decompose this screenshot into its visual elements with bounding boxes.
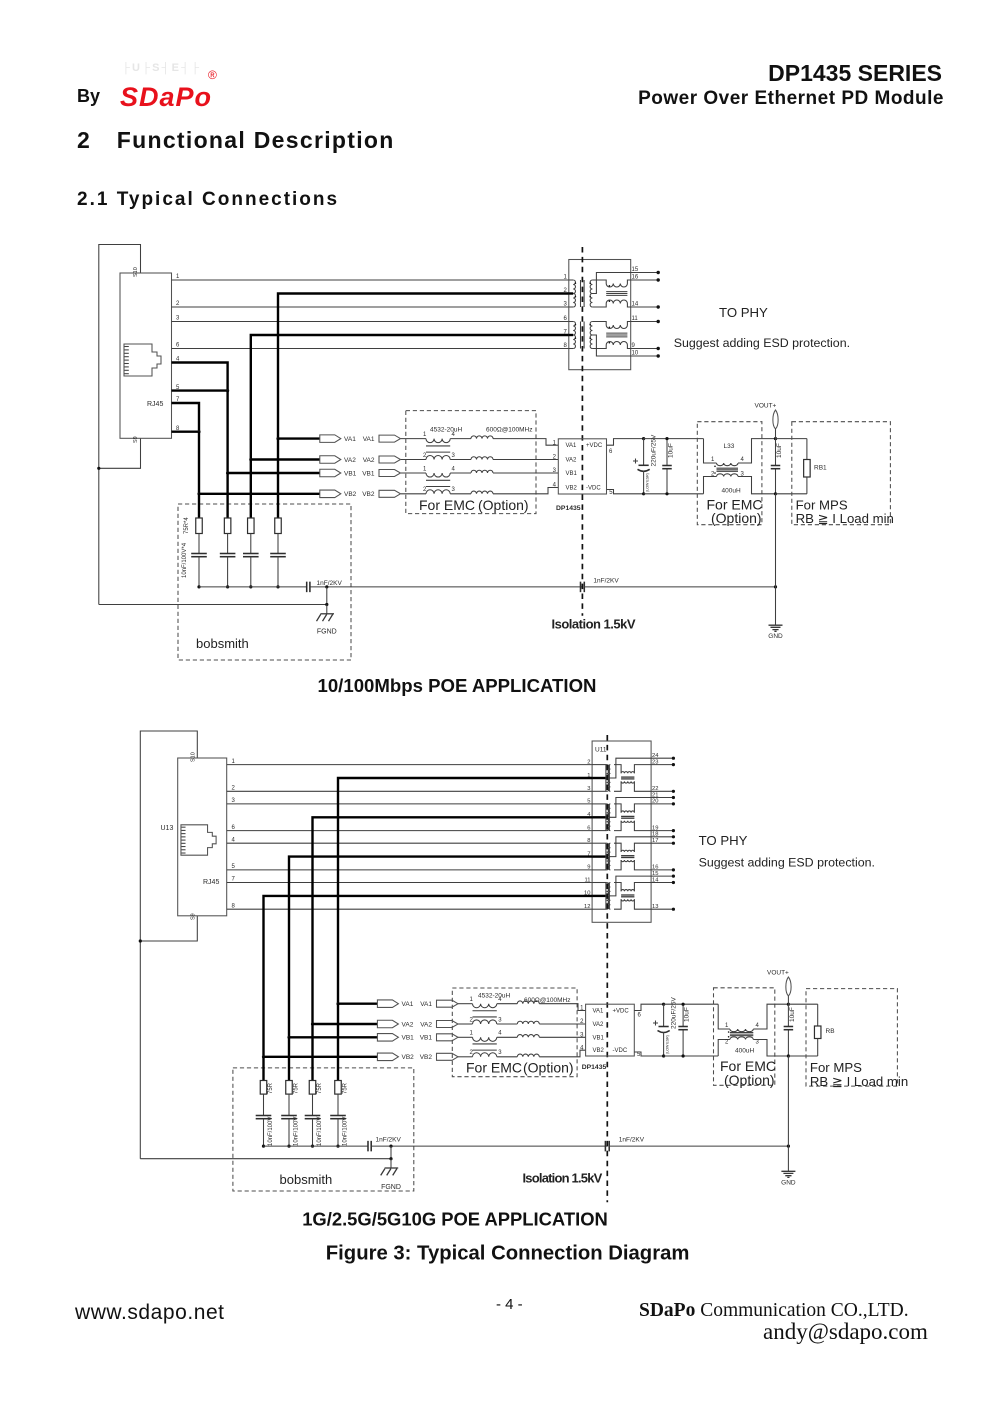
wire VB2-1 w-b	[450, 493, 471, 495]
svg-text:75R: 75R	[343, 1082, 349, 1094]
capacitor 1nF/2KV-2b	[605, 1137, 644, 1152]
net flag VA1-2	[377, 1000, 413, 1008]
net label VA1-1 in	[363, 435, 401, 443]
choke L2 winding 2-3	[725, 1036, 760, 1046]
svg-text:10nF/100V: 10nF/100V	[294, 1117, 300, 1146]
wire VA1-1 to EMC	[401, 438, 426, 440]
junction rail-1 VA1	[276, 585, 279, 588]
net flag VB2-1	[320, 490, 357, 498]
label U12 -VDC	[613, 1048, 628, 1054]
junction shield-2	[139, 939, 142, 942]
power flag VOUT+ (1)	[755, 403, 779, 439]
label 10nF/100V*4	[182, 542, 188, 578]
wire FGND-1 rail	[99, 604, 327, 606]
capacitor C6 10uF out (2)	[784, 1004, 796, 1056]
junction rail-1 VB1	[226, 585, 229, 588]
svg-text:19: 19	[652, 825, 658, 831]
capacitor 10nF-2d	[256, 1116, 274, 1147]
svg-text:4: 4	[232, 837, 236, 843]
svg-text:10nF/100V*4: 10nF/100V*4	[182, 542, 188, 578]
svg-text:2: 2	[725, 1040, 729, 1046]
label RJ45-1	[147, 401, 163, 408]
choke L2 top out	[753, 1004, 788, 1029]
label TO PHY (1)	[719, 305, 768, 320]
capacitor 10nF-1a	[270, 554, 286, 557]
inductor core	[426, 446, 450, 452]
inductor core	[426, 480, 450, 486]
wire VB2-2 feed	[264, 896, 593, 1057]
svg-text:VB1: VB1	[344, 470, 357, 477]
svg-text:+VDC: +VDC	[586, 443, 603, 449]
svg-text:18: 18	[652, 832, 658, 838]
svg-text:2: 2	[176, 301, 180, 307]
module U12 DP1435 body	[586, 1004, 635, 1056]
wire rail bot 1a	[644, 493, 704, 495]
choke L33 top out	[738, 439, 776, 463]
svg-text:S9: S9	[133, 436, 139, 443]
junction VB1-1 tee	[226, 471, 229, 474]
wire RJ45-1 pin 1 to T1	[172, 274, 569, 280]
wire VA2-1 in	[493, 459, 558, 461]
label 4532-20uH (2)	[478, 993, 510, 1000]
ferrite bead VB1-2	[517, 1035, 539, 1038]
label For EMC (Option) 1	[419, 497, 529, 513]
wire GND-1 drop	[775, 494, 777, 625]
svg-text:9: 9	[587, 865, 590, 871]
wire RJ45-2 shield bottom stub	[140, 916, 197, 941]
wire r-c 4	[198, 534, 200, 554]
label U12 VB2	[593, 1048, 605, 1054]
title 10/100Mbps	[318, 675, 597, 696]
wire RJ45-2 shield top loop	[140, 731, 197, 1159]
svg-text:Isolation 1.5kV: Isolation 1.5kV	[552, 617, 636, 632]
svg-text:RB ≧ I Load min: RB ≧ I Load min	[796, 511, 894, 526]
junction C6 bottom	[787, 1054, 790, 1057]
ferrite bead VA1-2	[517, 1001, 539, 1004]
resistor RB	[814, 1004, 834, 1056]
net flag VB2-2	[377, 1053, 414, 1061]
transformer T1 channel B	[563, 316, 659, 357]
wire c-rail 2	[250, 557, 252, 587]
net flag VA1-1	[320, 435, 356, 443]
wire c-rail 1	[277, 557, 279, 587]
inductor 4532-20uH winding B	[423, 487, 456, 494]
ground FGND-1	[317, 605, 337, 636]
svg-text:VA1: VA1	[566, 443, 578, 449]
label For EMC (Option) 3	[466, 1060, 574, 1076]
inductor 4532-20uH winding B (2)	[470, 1017, 503, 1024]
label bobsmith-1	[196, 636, 249, 651]
wire VB1-1 w-b	[450, 472, 471, 474]
svg-text:GND: GND	[781, 1180, 796, 1187]
svg-text:4532-20uH: 4532-20uH	[478, 993, 510, 1000]
junction pins 7-8	[197, 430, 200, 433]
svg-text:VB2: VB2	[420, 1054, 433, 1061]
svg-text:220uF/25V: 220uF/25V	[671, 997, 678, 1029]
choke L33 winding 2-3	[711, 472, 745, 478]
wire VB1-2 in	[539, 1036, 585, 1038]
ferrite bead VA2-2	[517, 1021, 539, 1024]
svg-text:(LOW ESR): (LOW ESR)	[646, 473, 650, 492]
wire rail-1 left	[199, 586, 306, 588]
header: ghost mark	[122, 62, 226, 75]
choke L2 core	[730, 1033, 753, 1036]
svg-text:VB1: VB1	[402, 1035, 415, 1042]
wire VA2-2 row	[313, 1023, 378, 1025]
wire RJ45-1 pin 2 to T1	[172, 301, 569, 307]
wire rail-2 left	[264, 1145, 368, 1147]
wire VB1-2 to EMC	[458, 1036, 473, 1038]
svg-text:(LOW ESR): (LOW ESR)	[666, 1035, 670, 1054]
svg-text:15: 15	[632, 267, 639, 273]
wire VA1-2 to EMC	[458, 1003, 473, 1005]
wire RJ45-1 pin 5	[172, 385, 228, 391]
ferrite bead VB2-2	[517, 1054, 539, 1057]
svg-text:5: 5	[232, 864, 236, 870]
transformer U11 channel 4	[584, 871, 675, 911]
svg-text:3: 3	[498, 1050, 502, 1056]
junction 10uF-1 bottom	[665, 492, 668, 495]
junction VA2-1 tee	[249, 458, 252, 461]
svg-text:600Ω@100MHz: 600Ω@100MHz	[486, 427, 533, 434]
wire RJ45-2 pin 3	[227, 798, 592, 804]
svg-text:S9: S9	[191, 913, 197, 920]
svg-text:4: 4	[741, 457, 745, 463]
svg-text:For EMC: For EMC	[419, 497, 475, 513]
junction VA1-1 tee	[276, 437, 279, 440]
svg-text:1: 1	[711, 457, 715, 463]
capacitor C2 10uF (1)	[662, 439, 674, 494]
inductor core (2)	[473, 1011, 497, 1017]
svg-text:VB1: VB1	[593, 1035, 605, 1041]
label RB>=ILoad (1)	[796, 511, 894, 526]
inductor 4532-20uH winding A (2)	[470, 997, 503, 1008]
svg-text:bobsmith: bobsmith	[280, 1172, 333, 1187]
heading 2 Functional Description	[77, 127, 395, 154]
net flag VB1-2	[377, 1034, 414, 1042]
junction 220uF-1 bottom	[642, 492, 645, 495]
svg-text:3: 3	[452, 487, 456, 493]
svg-text:1nF/2KV: 1nF/2KV	[376, 1137, 402, 1144]
svg-text:3: 3	[452, 453, 456, 459]
svg-text:VB2: VB2	[344, 491, 357, 498]
junction GND-1 tap	[774, 585, 777, 588]
svg-text:(Option): (Option)	[711, 510, 762, 526]
junction VB2-2 tee	[262, 1055, 265, 1058]
capacitor 10nF-1b	[243, 554, 259, 557]
label U12 VA2	[593, 1022, 605, 1028]
module U1 DP1435 body	[558, 439, 606, 494]
svg-text:1: 1	[423, 432, 427, 438]
wire VB2-2 jog	[539, 1050, 585, 1057]
wire VB2-1 drop	[198, 432, 200, 494]
label S9-2	[191, 913, 197, 920]
wire FGND-2 rail	[140, 1158, 391, 1160]
choke L33 top path	[704, 439, 717, 463]
svg-text:7: 7	[232, 877, 236, 883]
wire c-rail 2-1	[337, 1119, 339, 1146]
pin labels U12 left	[580, 1006, 584, 1052]
wire VA2-1 feed	[251, 335, 569, 460]
wire FGND-2 drop	[390, 1146, 392, 1159]
wire U12 -VDC out	[634, 1052, 663, 1058]
label S10-1	[133, 267, 139, 277]
svg-text:U13: U13	[161, 825, 174, 832]
svg-text:VA1: VA1	[363, 436, 375, 443]
label For MPS (2)	[810, 1060, 862, 1075]
label U11	[595, 747, 607, 754]
net flag VA2-2	[377, 1020, 413, 1028]
connector J1 RJ45 body	[120, 273, 172, 438]
label U1 VB1	[566, 471, 578, 477]
For MPS dashed box (1)	[792, 422, 891, 525]
ground FGND-2	[381, 1159, 401, 1191]
For MPS dashed box (2)	[806, 989, 897, 1087]
svg-text:3: 3	[232, 798, 236, 804]
wire VA2-1 row	[251, 458, 320, 460]
capacitor 10nF-2c	[281, 1116, 299, 1147]
resistor 75R-2b	[309, 1081, 323, 1095]
wire VA2-2 feed	[313, 817, 593, 1024]
junction VB2-1 tee	[197, 492, 200, 495]
transformer U11 channel 3	[587, 832, 675, 872]
junction 10uF-2 bottom	[682, 1054, 685, 1057]
svg-text:bobsmith: bobsmith	[196, 636, 249, 651]
label L33	[724, 443, 735, 450]
svg-text:13: 13	[652, 904, 658, 910]
svg-text:L33: L33	[724, 443, 735, 450]
junction rail-2 VA2	[311, 1145, 314, 1148]
choke L33 core	[717, 468, 739, 471]
capacitor C5 10uF (2)	[678, 1004, 690, 1056]
label U1 -VDC	[586, 486, 601, 492]
svg-text:VA1: VA1	[402, 1001, 414, 1008]
label Isolation 1.5kV (1)	[552, 617, 636, 632]
svg-text:RJ45: RJ45	[203, 879, 219, 886]
wire VA1-1 down	[277, 439, 279, 518]
svg-text:15: 15	[652, 871, 658, 877]
wire VA1-2 jog	[539, 1004, 585, 1011]
header: subtitle	[567, 88, 944, 110]
svg-text:Suggest adding ESD protection.: Suggest adding ESD protection.	[674, 336, 850, 350]
svg-text:75R: 75R	[317, 1082, 323, 1094]
wire c-rail 4	[198, 557, 200, 587]
wire RJ45-2 pin 5	[227, 864, 592, 870]
label S10-2	[191, 752, 197, 762]
choke L2 bottom out	[753, 1040, 788, 1057]
label U13	[161, 825, 174, 832]
svg-text:VB2: VB2	[566, 486, 578, 492]
label U1 +VDC	[586, 443, 603, 449]
svg-text:10nF/100V: 10nF/100V	[268, 1117, 274, 1146]
label For EMC (Option) 2	[707, 497, 763, 527]
label 400uH (1)	[722, 488, 741, 495]
wire VB1-1 to EMC	[401, 472, 426, 474]
svg-text:FGND: FGND	[381, 1184, 401, 1191]
ferrite bead VA1-1	[471, 436, 493, 439]
label bobsmith-2	[280, 1172, 333, 1187]
wire VB2-2 to EMC	[458, 1056, 473, 1058]
wire VA1-1 jog	[493, 439, 558, 446]
capacitor 10nF-1d	[191, 554, 207, 557]
wire RJ45-1 pin 3 to T1	[172, 316, 569, 322]
isolation barrier 2	[606, 735, 608, 1202]
svg-text:5: 5	[587, 799, 590, 805]
wire RJ45-1 pin 8	[172, 426, 200, 432]
inductor 4532-20uH winding A	[423, 432, 456, 443]
resistor 75R-1a	[275, 518, 282, 534]
capacitor C3 10uF out (1)	[771, 439, 783, 494]
junction 220uF-1 top	[642, 437, 645, 440]
wire RJ45-1 pin 7	[172, 397, 200, 432]
label RJ45-2	[203, 879, 219, 886]
junction VB1-2 tee	[287, 1036, 290, 1039]
svg-text:VA2: VA2	[363, 457, 375, 464]
wire GND-2 drop2	[787, 1146, 789, 1171]
svg-text:Suggest adding ESD protection.: Suggest adding ESD protection.	[699, 856, 875, 870]
net label VB2-2 in	[420, 1053, 458, 1061]
junction pins 4-5	[226, 389, 229, 392]
junction VA1-2 tee	[336, 1002, 339, 1005]
wire rail top 1b	[776, 438, 807, 440]
svg-text:3: 3	[587, 786, 590, 792]
wire FGND-1 drop	[326, 587, 328, 605]
wire RJ45-2 pin 7	[227, 877, 592, 883]
label U1 refdes DP1435	[556, 505, 581, 512]
wire r-c 2-1	[337, 1094, 339, 1115]
svg-text:11: 11	[584, 877, 590, 883]
wire VA2-2 down	[311, 1024, 313, 1081]
wire VB1-1 row	[228, 472, 320, 474]
svg-text:GND: GND	[768, 633, 783, 640]
svg-text:1nF/2KV: 1nF/2KV	[619, 1137, 645, 1144]
wire RJ45-2 pin 1	[227, 759, 592, 765]
svg-text:6: 6	[176, 343, 180, 349]
power flag VOUT+ (2)	[767, 970, 791, 1005]
connector U13 RJ45 body	[178, 758, 227, 916]
svg-text:21: 21	[652, 792, 658, 798]
transformer U11 body	[592, 741, 651, 922]
junction 220uF-2 bottom	[662, 1054, 665, 1057]
wire VB1-2 feed	[289, 857, 592, 1038]
label 400uH (2)	[735, 1048, 754, 1055]
svg-text:-VDC: -VDC	[613, 1048, 628, 1054]
svg-text:VA2: VA2	[593, 1022, 605, 1028]
wire c-rail 2-4	[263, 1119, 265, 1146]
label ESD note (1)	[674, 336, 850, 350]
wire U1 +VDC out	[607, 439, 644, 455]
svg-text:4532-20uH: 4532-20uH	[430, 427, 462, 434]
junction 10uF-2 top	[682, 1003, 685, 1006]
wire VA1-2 down	[337, 1004, 339, 1081]
svg-text:VA1: VA1	[344, 436, 356, 443]
svg-text:1G/2.5G/5G10G POE APPLICATION: 1G/2.5G/5G10G POE APPLICATION	[302, 1209, 608, 1230]
svg-text:4: 4	[498, 1031, 502, 1037]
inductor 4532-20uH winding A	[423, 466, 456, 477]
junction rail-1 VB2	[197, 585, 200, 588]
svg-text:VA2: VA2	[344, 457, 356, 464]
capacitor 10nF-2a	[330, 1116, 348, 1147]
svg-text:3: 3	[176, 316, 180, 322]
svg-text:VB1: VB1	[362, 470, 375, 477]
transformer U11 channel 2	[587, 792, 675, 832]
junction FGND-1	[325, 603, 328, 606]
choke L33 bottom path	[704, 477, 717, 494]
ground GND-1	[768, 625, 783, 640]
connector U13 RJ45 jack icon	[181, 825, 216, 855]
wire VA2-2 to EMC	[458, 1023, 473, 1025]
junction FGND-2 tap	[389, 1145, 392, 1148]
heading 2.1 Typical Connections	[77, 189, 339, 211]
capacitor C4 220uF/25V	[653, 997, 678, 1056]
svg-text:Isolation 1.5kV: Isolation 1.5kV	[523, 1171, 603, 1186]
svg-text:6: 6	[609, 449, 613, 455]
label TO PHY (2)	[699, 833, 748, 848]
svg-text:17: 17	[652, 838, 658, 844]
svg-text:3: 3	[756, 1040, 760, 1046]
bobsmith-2 dashed box	[233, 1068, 414, 1191]
wire VB2-2 w-b	[497, 1056, 518, 1058]
header: DP1435 SERIES	[567, 60, 942, 87]
svg-text:For MPS: For MPS	[810, 1060, 862, 1075]
choke L33 winding 1-4	[711, 457, 745, 467]
junction 10uF-1 top	[665, 437, 668, 440]
svg-text:1nF/2KV: 1nF/2KV	[317, 580, 343, 587]
label U12 VA1	[593, 1009, 605, 1015]
wire GND-2 drop	[787, 1056, 789, 1146]
label U1 VA2	[566, 458, 578, 464]
svg-text:DP1435: DP1435	[556, 505, 581, 512]
wire RJ45-2 pin 8	[227, 903, 592, 909]
svg-text:6: 6	[232, 825, 236, 831]
wire c-rail 2-3	[288, 1119, 290, 1146]
svg-text:16: 16	[652, 865, 658, 871]
capacitor 1nF/2KV-1a	[307, 580, 343, 592]
choke L2 bottom path	[718, 1040, 730, 1057]
svg-text:5: 5	[609, 490, 613, 496]
label 75R*4	[184, 517, 190, 534]
wire VA1-1 row	[278, 437, 320, 439]
junction rail-2 VB1	[287, 1145, 290, 1148]
svg-text:TO PHY: TO PHY	[719, 305, 768, 320]
wire rail-2 right	[609, 1145, 788, 1147]
inductor 4532-20uH winding B	[423, 453, 456, 460]
junction rail-1 VA2	[249, 585, 252, 588]
wire RJ45-1 pin 4	[172, 357, 228, 391]
svg-text:14: 14	[632, 302, 639, 308]
capacitor 10nF-1c	[220, 554, 236, 557]
svg-text:RB: RB	[826, 1028, 835, 1035]
svg-text:VB2: VB2	[362, 491, 375, 498]
wire U12 +VDC out	[634, 1004, 663, 1018]
svg-text:22: 22	[652, 786, 658, 792]
pin labels U1 left	[553, 440, 557, 488]
wire VA1-2 feed	[338, 778, 592, 1004]
svg-text:FGND: FGND	[317, 628, 337, 635]
svg-text:4: 4	[452, 466, 456, 472]
label For EMC (Option) 4	[720, 1058, 776, 1088]
wire r-c 1	[277, 534, 279, 554]
wire r-c 2-3	[288, 1094, 290, 1115]
svg-text:10uF: 10uF	[684, 1007, 691, 1022]
net label VA1-2 in	[420, 1000, 458, 1008]
junction FGND-2	[389, 1157, 392, 1160]
wire RJ45-2 pin 4	[227, 837, 592, 843]
capacitor 1nF/2KV-1b	[581, 578, 620, 593]
wire VA2-2 in	[539, 1023, 585, 1025]
wire r-c 3	[227, 534, 229, 554]
capacitor 1nF/2KV-2a	[368, 1137, 401, 1152]
